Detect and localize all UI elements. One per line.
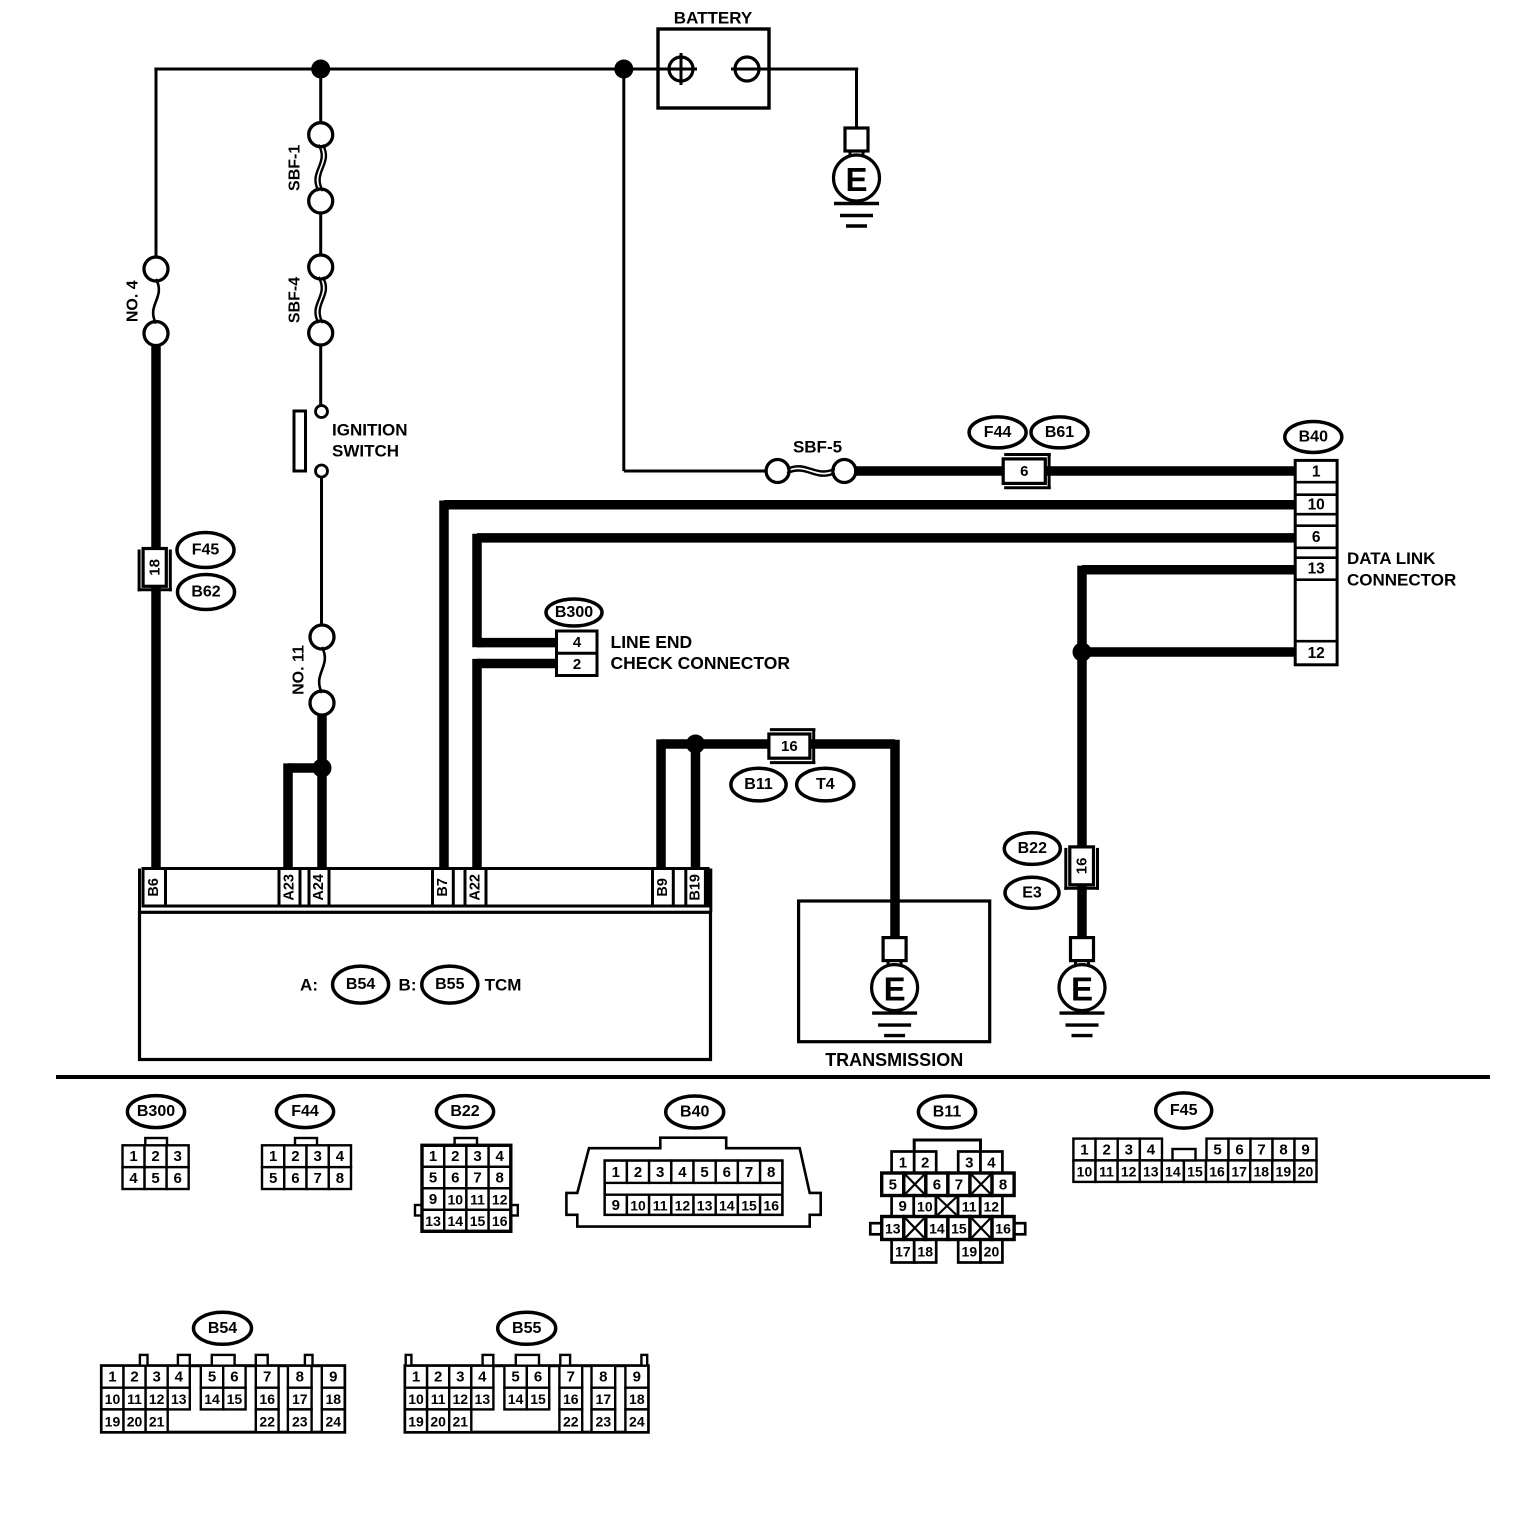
svg-text:4: 4 (678, 1164, 687, 1181)
svg-text:16: 16 (1074, 858, 1091, 875)
svg-text:2: 2 (130, 1369, 138, 1386)
svg-text:E: E (884, 971, 906, 1008)
svg-text:B62: B62 (191, 584, 220, 601)
svg-text:3: 3 (456, 1369, 464, 1386)
svg-text:B11: B11 (744, 776, 773, 793)
svg-text:4: 4 (1147, 1142, 1156, 1159)
svg-text:10: 10 (917, 1199, 933, 1215)
svg-text:20: 20 (127, 1413, 143, 1429)
svg-text:BATTERY: BATTERY (674, 9, 753, 28)
svg-text:11: 11 (431, 1391, 446, 1407)
svg-text:8: 8 (1279, 1142, 1287, 1159)
svg-text:19: 19 (962, 1244, 978, 1260)
svg-text:5: 5 (1213, 1142, 1221, 1159)
svg-text:1: 1 (129, 1148, 137, 1165)
svg-text:8: 8 (999, 1176, 1007, 1193)
svg-text:15: 15 (951, 1221, 967, 1237)
svg-text:9: 9 (633, 1369, 641, 1386)
svg-text:13: 13 (1308, 561, 1326, 578)
svg-text:3: 3 (965, 1154, 973, 1171)
svg-text:16: 16 (492, 1213, 508, 1229)
svg-text:6: 6 (1235, 1142, 1243, 1159)
svg-text:NO. 4: NO. 4 (125, 280, 142, 322)
svg-text:7: 7 (473, 1170, 481, 1187)
svg-text:10: 10 (105, 1391, 121, 1407)
svg-text:3: 3 (1125, 1142, 1133, 1159)
svg-text:TRANSMISSION: TRANSMISSION (825, 1050, 963, 1070)
svg-text:8: 8 (296, 1369, 304, 1386)
svg-text:6: 6 (1020, 463, 1028, 480)
svg-text:2: 2 (291, 1148, 299, 1165)
svg-text:24: 24 (629, 1413, 645, 1429)
svg-text:A23: A23 (282, 874, 298, 901)
svg-text:13: 13 (697, 1197, 713, 1213)
svg-text:2: 2 (634, 1164, 642, 1181)
svg-text:B22: B22 (1018, 840, 1047, 857)
svg-text:4: 4 (129, 1170, 138, 1187)
svg-text:17: 17 (1231, 1164, 1247, 1180)
svg-text:5: 5 (889, 1176, 897, 1193)
svg-text:20: 20 (430, 1413, 446, 1429)
svg-text:5: 5 (511, 1369, 519, 1386)
svg-text:18: 18 (1253, 1164, 1269, 1180)
svg-text:23: 23 (596, 1413, 612, 1429)
svg-text:2: 2 (434, 1369, 442, 1386)
svg-text:12: 12 (1121, 1164, 1137, 1180)
svg-text:B55: B55 (512, 1320, 541, 1337)
svg-text:DATA LINK: DATA LINK (1347, 549, 1436, 568)
svg-text:B61: B61 (1045, 424, 1074, 441)
svg-text:14: 14 (448, 1213, 464, 1229)
svg-text:SBF-4: SBF-4 (287, 277, 304, 323)
svg-text:B300: B300 (555, 604, 593, 621)
svg-text:B22: B22 (450, 1103, 479, 1120)
svg-text:LINE END: LINE END (611, 632, 693, 652)
svg-text:19: 19 (1276, 1164, 1292, 1180)
svg-text:18: 18 (917, 1244, 933, 1260)
svg-text:13: 13 (885, 1221, 901, 1237)
svg-text:15: 15 (227, 1391, 243, 1407)
svg-text:4: 4 (175, 1369, 184, 1386)
svg-text:B55: B55 (435, 976, 464, 993)
svg-text:7: 7 (955, 1176, 963, 1193)
svg-text:13: 13 (1143, 1164, 1159, 1180)
svg-text:A24: A24 (311, 874, 327, 901)
svg-text:12: 12 (984, 1199, 1000, 1215)
svg-text:T4: T4 (816, 776, 835, 793)
svg-text:16: 16 (763, 1197, 779, 1213)
svg-text:3: 3 (173, 1148, 181, 1165)
svg-text:19: 19 (105, 1413, 121, 1429)
svg-text:TCM: TCM (485, 976, 522, 995)
svg-text:A:: A: (300, 976, 318, 995)
svg-text:19: 19 (408, 1413, 424, 1429)
svg-text:SWITCH: SWITCH (332, 442, 399, 461)
svg-text:12: 12 (149, 1391, 165, 1407)
svg-text:CHECK CONNECTOR: CHECK CONNECTOR (611, 653, 791, 673)
svg-text:16: 16 (563, 1391, 579, 1407)
svg-text:4: 4 (336, 1148, 345, 1165)
svg-text:IGNITION: IGNITION (332, 421, 408, 440)
svg-text:15: 15 (1187, 1164, 1203, 1180)
svg-text:6: 6 (534, 1369, 542, 1386)
svg-text:E: E (845, 161, 867, 198)
svg-text:18: 18 (325, 1391, 341, 1407)
svg-text:23: 23 (292, 1413, 308, 1429)
svg-text:5: 5 (151, 1170, 159, 1187)
svg-text:11: 11 (962, 1199, 977, 1215)
svg-text:B54: B54 (208, 1320, 237, 1337)
svg-text:3: 3 (656, 1164, 664, 1181)
svg-text:B19: B19 (688, 874, 704, 901)
svg-text:NO. 11: NO. 11 (291, 645, 308, 695)
svg-text:3: 3 (313, 1148, 321, 1165)
svg-text:11: 11 (127, 1391, 142, 1407)
svg-text:4: 4 (496, 1148, 505, 1165)
svg-text:B40: B40 (680, 1104, 709, 1121)
svg-text:10: 10 (1077, 1164, 1093, 1180)
svg-text:9: 9 (612, 1197, 620, 1214)
svg-text:20: 20 (984, 1244, 1000, 1260)
svg-text:B300: B300 (137, 1103, 175, 1120)
svg-text:5: 5 (208, 1369, 216, 1386)
svg-text:14: 14 (508, 1391, 524, 1407)
svg-text:24: 24 (325, 1413, 341, 1429)
svg-text:13: 13 (475, 1391, 491, 1407)
svg-text:8: 8 (767, 1164, 775, 1181)
svg-text:14: 14 (929, 1221, 945, 1237)
svg-text:B40: B40 (1299, 429, 1328, 446)
svg-text:11: 11 (1099, 1164, 1114, 1180)
svg-text:16: 16 (781, 738, 798, 755)
svg-text:B7: B7 (435, 878, 451, 897)
svg-text:9: 9 (899, 1198, 907, 1215)
svg-text:13: 13 (171, 1391, 187, 1407)
svg-text:CONNECTOR: CONNECTOR (1347, 571, 1456, 590)
svg-text:B:: B: (399, 976, 417, 995)
svg-text:8: 8 (336, 1170, 344, 1187)
svg-text:18: 18 (629, 1391, 645, 1407)
svg-text:22: 22 (259, 1413, 275, 1429)
svg-text:2: 2 (151, 1148, 159, 1165)
svg-text:11: 11 (653, 1197, 668, 1213)
svg-text:F45: F45 (192, 542, 220, 559)
svg-text:7: 7 (567, 1369, 575, 1386)
svg-text:9: 9 (429, 1191, 437, 1208)
svg-text:8: 8 (496, 1170, 504, 1187)
svg-text:2: 2 (573, 656, 581, 673)
svg-text:7: 7 (745, 1164, 753, 1181)
svg-text:22: 22 (563, 1413, 579, 1429)
svg-text:12: 12 (452, 1391, 468, 1407)
svg-text:SBF-5: SBF-5 (793, 438, 842, 457)
svg-text:9: 9 (1301, 1142, 1309, 1159)
svg-text:1: 1 (612, 1164, 620, 1181)
svg-text:3: 3 (473, 1148, 481, 1165)
svg-text:14: 14 (204, 1391, 220, 1407)
svg-text:1: 1 (108, 1369, 116, 1386)
svg-text:10: 10 (408, 1391, 424, 1407)
svg-text:1: 1 (269, 1148, 277, 1165)
svg-text:1: 1 (412, 1369, 420, 1386)
svg-text:16: 16 (1209, 1164, 1225, 1180)
svg-text:18: 18 (147, 559, 164, 576)
svg-text:17: 17 (596, 1391, 612, 1407)
svg-text:F44: F44 (291, 1103, 319, 1120)
svg-text:E3: E3 (1022, 884, 1042, 901)
svg-text:2: 2 (451, 1148, 459, 1165)
svg-text:15: 15 (741, 1197, 757, 1213)
svg-text:6: 6 (173, 1170, 181, 1187)
svg-text:B6: B6 (146, 878, 162, 897)
svg-text:B11: B11 (933, 1104, 962, 1121)
svg-text:14: 14 (1165, 1164, 1181, 1180)
svg-text:9: 9 (329, 1369, 337, 1386)
svg-text:B9: B9 (655, 878, 671, 897)
svg-text:6: 6 (291, 1170, 299, 1187)
svg-text:10: 10 (448, 1192, 464, 1208)
svg-text:3: 3 (152, 1369, 160, 1386)
svg-text:1: 1 (899, 1154, 907, 1171)
svg-text:21: 21 (452, 1413, 468, 1429)
svg-text:16: 16 (995, 1221, 1011, 1237)
svg-text:4: 4 (573, 634, 582, 651)
svg-text:8: 8 (599, 1369, 607, 1386)
svg-text:16: 16 (259, 1391, 275, 1407)
svg-text:7: 7 (1257, 1142, 1265, 1159)
svg-text:2: 2 (1102, 1142, 1110, 1159)
svg-text:B54: B54 (346, 976, 375, 993)
svg-text:6: 6 (723, 1164, 731, 1181)
svg-text:10: 10 (630, 1197, 646, 1213)
svg-text:14: 14 (719, 1197, 735, 1213)
svg-text:4: 4 (478, 1369, 487, 1386)
svg-text:2: 2 (921, 1154, 929, 1171)
svg-text:5: 5 (269, 1170, 277, 1187)
svg-text:F44: F44 (984, 424, 1012, 441)
svg-text:15: 15 (470, 1213, 486, 1229)
svg-text:4: 4 (987, 1154, 996, 1171)
svg-text:21: 21 (149, 1413, 165, 1429)
svg-text:17: 17 (895, 1244, 911, 1260)
svg-text:6: 6 (451, 1170, 459, 1187)
svg-text:12: 12 (1308, 645, 1325, 662)
svg-text:12: 12 (492, 1192, 508, 1208)
svg-text:1: 1 (1312, 463, 1321, 480)
svg-text:7: 7 (313, 1170, 321, 1187)
svg-text:F45: F45 (1170, 1102, 1198, 1119)
svg-text:E: E (1071, 971, 1093, 1008)
svg-text:13: 13 (425, 1213, 441, 1229)
svg-text:6: 6 (230, 1369, 238, 1386)
svg-text:A22: A22 (468, 874, 484, 901)
svg-text:1: 1 (429, 1148, 437, 1165)
svg-text:17: 17 (292, 1391, 308, 1407)
svg-text:6: 6 (933, 1176, 941, 1193)
svg-text:5: 5 (700, 1164, 708, 1181)
svg-text:10: 10 (1308, 496, 1325, 513)
svg-text:SBF-1: SBF-1 (287, 145, 304, 191)
svg-text:5: 5 (429, 1170, 437, 1187)
svg-text:7: 7 (263, 1369, 271, 1386)
svg-text:6: 6 (1312, 529, 1321, 546)
svg-text:12: 12 (675, 1197, 691, 1213)
svg-text:11: 11 (470, 1192, 485, 1208)
svg-text:20: 20 (1298, 1164, 1314, 1180)
svg-text:1: 1 (1080, 1142, 1088, 1159)
svg-text:15: 15 (530, 1391, 546, 1407)
